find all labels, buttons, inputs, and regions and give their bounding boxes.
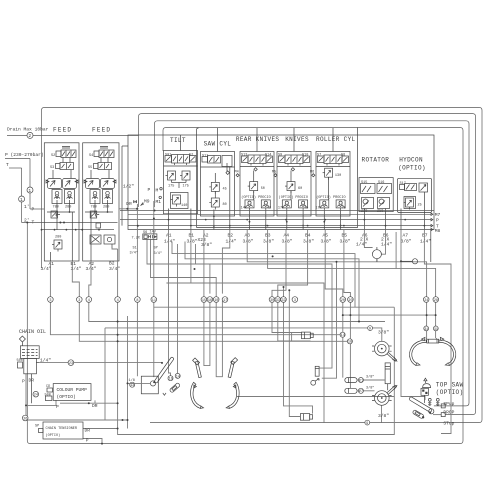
long bus 328 circle9: [105, 328, 382, 420]
colour pump DR line: [60, 400, 118, 403]
svg-text:STup: STup: [443, 420, 454, 426]
svg-text:1/4": 1/4": [420, 239, 431, 245]
svg-text:3/4": 3/4": [154, 251, 162, 256]
svg-text:2: 2: [28, 133, 31, 139]
svg-text:75: 75: [304, 207, 308, 211]
wire tilt M stair b: [185, 242, 359, 322]
svg-text:M4: M4: [235, 171, 239, 175]
svg-text:3/8": 3/8": [303, 239, 314, 245]
saw feed vertical: [127, 316, 129, 420]
wire X23 drop: [196, 244, 333, 368]
main valve bank box: [122, 135, 434, 230]
svg-text:45: 45: [223, 188, 227, 192]
svg-text:M6: M6: [310, 171, 314, 175]
svg-text:50: 50: [261, 187, 265, 191]
svg-text:B7: B7: [422, 233, 428, 239]
wire A6 rotator: [364, 230, 372, 248]
svg-text:17K: 17K: [278, 207, 285, 211]
node Drain: [7, 127, 139, 140]
wire motor mid feed: [322, 262, 337, 378]
svg-text:3/4": 3/4": [130, 251, 138, 256]
frame loop D tank return: [27, 128, 463, 444]
svg-text:175: 175: [183, 185, 189, 189]
svg-text:11: 11: [152, 299, 156, 303]
svg-text:25: 25: [418, 204, 422, 208]
svg-text:15: 15: [169, 378, 173, 382]
svg-text:S1: S1: [133, 247, 137, 251]
wire B7 drop: [424, 230, 451, 434]
compensator pair f1: [52, 190, 62, 204]
relief 130: [323, 168, 333, 180]
svg-text:14V: 14V: [150, 231, 157, 235]
svg-text:140: 140: [181, 204, 187, 208]
svg-text:3/8": 3/8": [263, 239, 274, 245]
frame loop B: [139, 114, 476, 415]
svg-text:75: 75: [342, 207, 346, 211]
top saw check valves: [428, 398, 439, 406]
feed-tilt link labels: [123, 184, 162, 212]
svg-text:(OPTIO): (OPTIO): [57, 394, 76, 400]
feed drain links: [119, 208, 139, 210]
svg-text:M7: M7: [435, 212, 441, 218]
bus line T rail: [128, 225, 431, 227]
valve module TILT: [164, 151, 198, 230]
svg-text:24: 24: [34, 394, 38, 398]
relief 50: [248, 182, 258, 194]
svg-text:A7: A7: [403, 233, 409, 239]
svg-text:REAR KNIVES: REAR KNIVES: [236, 136, 280, 143]
svg-text:1/4": 1/4": [226, 239, 237, 245]
wire knife line 10: [151, 240, 223, 377]
oil pump: [17, 358, 52, 404]
pilot valve f2: [90, 211, 97, 218]
valve module ROTATOR: [359, 178, 393, 230]
compensator pair f2: [90, 190, 100, 204]
circled node row: [48, 297, 439, 303]
wire A7 drop: [401, 230, 425, 401]
svg-text:1: 1: [28, 188, 31, 194]
svg-text:3/4": 3/4": [109, 266, 120, 272]
wire A3 drop to rear grapple: [247, 230, 426, 339]
svg-text:M8: M8: [435, 228, 441, 234]
wire grease rail: [343, 314, 436, 316]
long bus 396: [237, 396, 394, 398]
breather: [19, 336, 25, 346]
svg-text:ROLLER CYL: ROLLER CYL: [316, 136, 356, 143]
svg-text:16: 16: [208, 299, 212, 303]
relief 60: [285, 182, 295, 194]
FEED port labels: [41, 261, 121, 273]
svg-text:780: 780: [53, 206, 59, 210]
svg-text:CHAIN OIL: CHAIN OIL: [19, 329, 46, 335]
svg-text:CD: CD: [46, 385, 50, 389]
svg-text:3/8": 3/8": [378, 330, 389, 336]
wire tilt M stair a: [172, 242, 355, 308]
svg-text:1/2": 1/2": [123, 184, 134, 190]
wire cyl2 feed b: [289, 290, 300, 416]
svg-text:S13: S13: [241, 154, 247, 158]
svg-text:10: 10: [348, 341, 352, 345]
svg-text:3: 3: [294, 299, 296, 303]
wire B3 drop to rear grapple: [268, 230, 436, 339]
svg-text:23: 23: [69, 362, 73, 366]
svg-text:3/8": 3/8": [282, 239, 293, 245]
svg-text:SP: SP: [154, 247, 158, 251]
svg-text:175: 175: [168, 185, 174, 189]
svg-text:P: P: [436, 217, 439, 223]
svg-text:COLOUR PUMP: COLOUR PUMP: [57, 387, 88, 393]
svg-text:30: 30: [270, 299, 274, 303]
svg-text:S3: S3: [50, 166, 54, 170]
rear grapple: [410, 337, 456, 365]
svg-text:280: 280: [55, 235, 61, 239]
svg-text:250: 250: [377, 210, 383, 214]
relief 25: [404, 197, 416, 209]
svg-text:S2: S2: [51, 154, 55, 158]
wire A1 port drop to saw: [169, 230, 171, 376]
wire A2 drop to knife bracket L: [204, 230, 210, 366]
saw assembly: [127, 357, 181, 396]
main spool valve f2: [86, 179, 100, 189]
wire FEED A2 drop: [89, 261, 385, 322]
svg-text:(OPTIO): (OPTIO): [46, 433, 61, 438]
colour pump P line: [26, 374, 56, 420]
valve block FEED 2: [83, 143, 119, 261]
svg-text:(OPTIO): (OPTIO): [436, 389, 464, 396]
svg-text:B2: B2: [228, 233, 234, 239]
wire A4 drop: [272, 230, 302, 333]
svg-text:17: 17: [223, 299, 227, 303]
frame loop C: [155, 121, 470, 406]
junction dots lower: [25, 255, 360, 444]
svg-text:FEED: FEED: [53, 127, 72, 134]
svg-text:P (230-270bar): P (230-270bar): [5, 152, 44, 158]
svg-text:DR: DR: [85, 428, 91, 434]
svg-text:1': 1': [24, 204, 30, 210]
valve block FEED 1: [41, 143, 114, 261]
svg-text:31: 31: [424, 328, 428, 332]
top saw chain box: [421, 388, 428, 403]
svg-text:60: 60: [298, 187, 302, 191]
svg-text:14: 14: [341, 334, 345, 338]
svg-text:TOP SAW: TOP SAW: [436, 382, 464, 389]
svg-text:M5: M5: [272, 171, 276, 175]
svg-text:HYDCON: HYDCON: [399, 157, 423, 164]
svg-text:130: 130: [335, 174, 341, 178]
svg-text:3/8": 3/8": [378, 413, 389, 419]
svg-text:P: P: [56, 404, 59, 410]
main spool valve f1: [48, 179, 62, 189]
long bus 309: [154, 306, 394, 308]
svg-text:31: 31: [434, 328, 438, 332]
svg-text:3/8": 3/8": [201, 242, 212, 248]
svg-text:S6: S6: [143, 231, 147, 235]
top saw bar: [409, 396, 434, 419]
svg-text:P: P: [32, 207, 35, 213]
svg-text:14K: 14K: [241, 207, 248, 211]
svg-text:1/8: 1/8: [129, 378, 135, 383]
wire FEED B2 drop to box edge: [112, 248, 118, 249]
valve module ROLLER CYL: [315, 152, 350, 230]
roller accumulator: [385, 363, 390, 390]
svg-text:280: 280: [103, 206, 109, 210]
svg-text:P: P: [22, 379, 25, 385]
svg-text:3: 3: [78, 299, 80, 303]
knife grapple cylinders: [193, 358, 238, 378]
svg-text:33: 33: [276, 299, 280, 303]
check pair rk: [245, 200, 254, 210]
wire FEED B1 drop: [72, 261, 350, 341]
svg-text:M9: M9: [144, 199, 150, 205]
svg-text:28: 28: [434, 299, 438, 303]
saw brake box: [130, 231, 162, 256]
relief 140: [171, 193, 189, 209]
svg-text:26: 26: [23, 417, 27, 421]
grease accumulator: [311, 366, 319, 385]
relief rot L: [362, 198, 374, 209]
wire cyl2 feed a: [284, 287, 313, 414]
wire B2 drop to knife bracket R: [222, 230, 229, 294]
relief rot R: [378, 198, 390, 209]
svg-text:M1: M1: [156, 199, 162, 205]
svg-text:3/8": 3/8": [243, 239, 254, 245]
svg-text:13: 13: [130, 384, 134, 388]
grease capsules: [345, 375, 385, 394]
svg-text:7.2X: 7.2X: [132, 237, 141, 241]
svg-text:S5: S5: [88, 166, 92, 170]
relief 175 L: [166, 171, 176, 183]
wire knife line 16: [147, 240, 210, 294]
frame outer loop A: [42, 107, 483, 422]
svg-text:20: 20: [348, 299, 352, 303]
svg-text:10: 10: [214, 299, 218, 303]
svg-text:17K: 17K: [315, 207, 322, 211]
bus line M: [120, 210, 434, 212]
svg-text:1/4": 1/4": [356, 242, 367, 248]
wire M1 drop to saw: [177, 244, 179, 373]
wire FEED A1 to tank: [50, 261, 342, 335]
tensioner DR line: [83, 428, 118, 430]
aux valves f2: [90, 235, 101, 244]
tensioner feed line: [26, 420, 128, 429]
node T supply: [6, 162, 118, 226]
svg-text:3/8": 3/8": [366, 385, 374, 390]
svg-text:4: 4: [88, 299, 90, 303]
circled node extras: [22, 326, 438, 426]
svg-text:8: 8: [136, 299, 138, 303]
svg-text:B2: B2: [109, 261, 115, 267]
svg-text:3/8": 3/8": [366, 375, 374, 380]
right edge ports M7 P T M8: [431, 212, 441, 262]
svg-text:4: 4: [117, 299, 119, 303]
section pilot stubs: [181, 128, 334, 152]
valve module SAW CYL: [201, 152, 235, 230]
feed rail: [42, 229, 115, 231]
svg-text:Drain Max 10bar: Drain Max 10bar: [7, 127, 49, 133]
svg-text:80: 80: [223, 203, 227, 207]
wire A5 drop: [325, 230, 343, 378]
COLOUR PUMP box: [45, 384, 98, 410]
svg-text:14: 14: [176, 375, 180, 379]
wire rotator drain: [376, 259, 378, 262]
gap markers: [236, 174, 315, 177]
svg-text:M: M: [156, 188, 159, 194]
svg-text:280: 280: [65, 206, 71, 210]
svg-text:S17: S17: [400, 182, 406, 186]
svg-text:1: 1: [20, 197, 23, 203]
svg-text:DR: DR: [126, 201, 132, 207]
svg-text:B5: B5: [342, 233, 348, 239]
wire B5 drop: [344, 230, 351, 389]
svg-text:3: 3: [49, 299, 51, 303]
knife grapple claws: [191, 382, 240, 408]
svg-text:1/4": 1/4": [164, 239, 175, 245]
svg-text:(OPTIO) PROCIO: (OPTIO) PROCIO: [241, 195, 270, 200]
svg-text:20: 20: [341, 299, 345, 303]
plugged port: [400, 259, 418, 264]
mid cylinder 1: [302, 332, 314, 339]
svg-text:3/8": 3/8": [401, 239, 412, 245]
wire B4 drop: [278, 230, 311, 341]
mid cylinder 2: [300, 414, 312, 421]
svg-text:3/8": 3/8": [187, 239, 198, 245]
wire saw brake line 11: [153, 201, 155, 377]
svg-text:(OPTIO): (OPTIO): [398, 165, 426, 172]
svg-text:KNIVES: KNIVES: [285, 136, 309, 143]
roller motor 1: [372, 330, 397, 362]
svg-text:1/4": 1/4": [381, 242, 392, 248]
svg-text:SP: SP: [35, 425, 39, 429]
svg-text:780: 780: [91, 206, 97, 210]
wire B6 rotator: [381, 230, 385, 255]
main box left edge: [118, 232, 397, 435]
svg-text:S4: S4: [89, 154, 93, 158]
wire B1 port drop: [191, 230, 324, 423]
svg-text:TILT: TILT: [170, 137, 186, 144]
wire saw brake line 8: [136, 204, 138, 376]
relief 80: [209, 198, 219, 210]
svg-text:P: P: [148, 187, 151, 193]
svg-text:43: 43: [267, 207, 271, 211]
valve module KNIVES: [277, 152, 311, 230]
bus line M7: [128, 213, 431, 215]
valve module REAR KNIVES: [240, 152, 274, 230]
top saw oil cup: [423, 378, 431, 387]
wire b1 ext: [166, 282, 191, 284]
check pair kn: [282, 200, 291, 210]
svg-text:DR: DR: [92, 403, 98, 409]
TOP SAW labels: [436, 382, 464, 396]
CHAIN TENSIONER box: [35, 422, 90, 444]
svg-text:S8: S8: [341, 154, 345, 158]
bus junctions: [168, 219, 426, 227]
svg-text:S16: S16: [378, 181, 384, 185]
relief 45: [209, 182, 219, 194]
svg-text:500: 500: [17, 359, 23, 363]
top saw ports: [433, 401, 455, 427]
node P supply: [5, 152, 44, 213]
tensioner P line: [83, 439, 102, 444]
chain oil line: [39, 362, 162, 364]
oil tank: [20, 346, 39, 359]
svg-text:3/8": 3/8": [321, 239, 332, 245]
svg-text:33: 33: [282, 299, 286, 303]
bus line P rail: [120, 219, 431, 221]
svg-text:P: P: [86, 438, 89, 444]
svg-text:ROTATOR: ROTATOR: [362, 157, 390, 164]
svg-text:FEED: FEED: [92, 127, 111, 134]
svg-text:1/4": 1/4": [40, 358, 51, 364]
svg-text:(OPTIO) PROCIO: (OPTIO) PROCIO: [279, 195, 308, 200]
svg-text:15: 15: [202, 299, 206, 303]
svg-text:9: 9: [369, 328, 371, 332]
svg-text:T: T: [6, 162, 9, 168]
svg-text:9: 9: [366, 422, 368, 426]
wire motor2 drain: [381, 405, 383, 422]
svg-text:24: 24: [424, 299, 428, 303]
saw group box: [197, 128, 358, 228]
svg-text:S15: S15: [361, 181, 367, 185]
pilot valve f1: [51, 211, 58, 218]
valve module HYDCON: [398, 178, 432, 229]
svg-text:CHAIN TENSIONER: CHAIN TENSIONER: [46, 427, 78, 431]
roller motor 2: [372, 385, 397, 419]
svg-text:B1: B1: [189, 233, 195, 239]
relief 175 R: [180, 171, 190, 183]
rotator motor: [372, 247, 381, 262]
svg-text:3/8": 3/8": [340, 239, 351, 245]
svg-text:(OPTIO) PROCIO: (OPTIO) PROCIO: [316, 195, 345, 200]
bank port labels: [164, 233, 431, 249]
check pair rc: [320, 200, 329, 210]
